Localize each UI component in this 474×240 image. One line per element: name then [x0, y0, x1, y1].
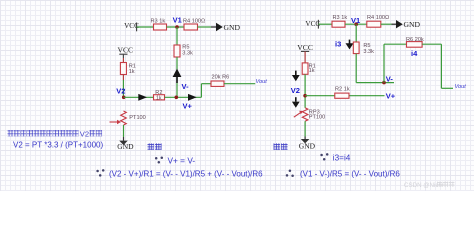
- wire R1 to V2: [122, 75, 124, 81]
- note: series divider relation (Chinese row 1): [8, 130, 103, 139]
- wire R3 to V1: [345, 23, 367, 25]
- node V1 (right): [351, 16, 360, 26]
- current arrow down (annotation, i3): [346, 40, 354, 50]
- current arrow right (annotation, V+ row): [188, 94, 197, 101]
- svg-text:V2: V2: [80, 130, 89, 139]
- note 虚断 (right): [274, 143, 288, 150]
- svg-text:PT100: PT100: [309, 114, 325, 120]
- resistor R4 100Ω (right): [367, 15, 389, 27]
- resistor R6 20k: [211, 74, 229, 86]
- svg-text:i3=i4: i3=i4: [333, 154, 351, 163]
- svg-text:V1: V1: [351, 16, 360, 25]
- wire R3 to V1: [167, 26, 185, 28]
- resistor R1 1k: [120, 63, 135, 75]
- svg-text:1k: 1k: [129, 69, 135, 75]
- wire R6 to Vout: [224, 83, 255, 85]
- svg-text:i4: i4: [411, 49, 418, 58]
- power port VCC (top rail): [124, 22, 139, 31]
- svg-text:(V1 - V-)/R5 = (V- - Vout)/R6: (V1 - V-)/R5 = (V- - Vout)/R6: [300, 169, 400, 178]
- because mark (left formula): [96, 169, 104, 177]
- node V1: [173, 16, 182, 29]
- svg-text:Vout: Vout: [256, 79, 268, 85]
- svg-text:20k R6: 20k R6: [212, 74, 230, 80]
- power port VCC (left branch, right circuit): [297, 43, 313, 52]
- power port GND (top right): [216, 23, 240, 32]
- ground GND (left branch): [117, 141, 134, 152]
- wire R4 to GND port: [381, 23, 396, 25]
- therefore mark (right formula): [286, 170, 294, 177]
- pin stub VCC to R1: [304, 51, 306, 63]
- wire V- up to R6 row: [384, 44, 407, 82]
- svg-text:R2 1k: R2 1k: [335, 87, 350, 93]
- svg-text:GND: GND: [299, 141, 316, 150]
- pin stub VCC to R1: [122, 54, 124, 58]
- svg-text:R4 100Ω: R4 100Ω: [183, 19, 205, 25]
- wire V2 to R2: [124, 96, 154, 98]
- svg-text:V+: V+: [183, 101, 193, 110]
- current arrow up (annotation): [173, 69, 182, 83]
- resistor R5 3.3k: [174, 45, 193, 57]
- thermistor RP3 PT100: [302, 108, 325, 121]
- svg-text:PT100: PT100: [129, 115, 145, 121]
- because mark (V+=V- line): [155, 156, 163, 163]
- node V2: [116, 87, 125, 100]
- current arrow down (annotation, below V2): [292, 97, 300, 108]
- svg-text:R3 1k: R3 1k: [151, 19, 166, 25]
- wire corner up to R6 row: [201, 84, 211, 98]
- svg-text:VCC: VCC: [118, 46, 134, 55]
- svg-text:R4 100Ω: R4 100Ω: [367, 15, 389, 21]
- wire VCC to R3: [318, 23, 332, 25]
- svg-text:(V2 - V+)/R1 = (V- - V1)/R5 +: (V2 - V+)/R1 = (V- - V1)/R5 + (V- - Vout…: [109, 169, 263, 178]
- svg-text:GND: GND: [404, 20, 421, 29]
- svg-text:3.3k: 3.3k: [363, 49, 374, 55]
- power port VCC (top rail): [305, 20, 320, 29]
- svg-text:V2: V2: [116, 87, 125, 96]
- resistor R2 1k (right): [335, 87, 350, 99]
- svg-text:VCC: VCC: [297, 43, 313, 52]
- wire R2 to corner, node V- junction: [165, 96, 202, 100]
- svg-text:R5: R5: [363, 43, 370, 49]
- svg-text:V+: V+: [386, 92, 396, 101]
- wire VCC to R3: [137, 26, 154, 28]
- svg-text:V-: V-: [182, 82, 190, 91]
- resistor R2 1k: [154, 90, 165, 102]
- ground GND (right branch): [299, 139, 316, 150]
- svg-text:V1: V1: [173, 16, 182, 25]
- node V2 (right): [291, 86, 307, 97]
- wire RP3 to GND: [304, 121, 306, 139]
- arrow into RP3: [294, 111, 303, 117]
- current arrow right (annotation, V2 row): [138, 94, 147, 101]
- wire R6 right and down to Vout: [422, 44, 453, 88]
- svg-text:GND: GND: [117, 142, 134, 151]
- svg-text:GND: GND: [224, 23, 241, 32]
- watermark: [404, 182, 454, 190]
- because mark (i3=i4): [320, 153, 328, 160]
- resistor R1 1k (right): [302, 63, 316, 74]
- power port GND (top right): [396, 20, 420, 29]
- svg-text:R6 20k: R6 20k: [406, 37, 424, 43]
- svg-text:Vout: Vout: [455, 84, 467, 90]
- node V- (right): [382, 74, 393, 84]
- wire R5 down to node V-: [176, 57, 178, 97]
- svg-text:V2: V2: [291, 86, 300, 95]
- svg-text:V2 = PT *3.3 / (PT+1000): V2 = PT *3.3 / (PT+1000): [13, 140, 103, 149]
- svg-text:R3 1k: R3 1k: [333, 15, 348, 21]
- resistor R6 20k (right): [406, 37, 424, 47]
- wire PT100 to GND: [123, 125, 125, 141]
- svg-text:1k: 1k: [309, 68, 315, 74]
- current arrow down (annotation, above V2): [292, 71, 300, 82]
- wire V1 down to R5: [355, 24, 357, 42]
- resistor R3 1k: [151, 19, 167, 30]
- svg-text:3.3k: 3.3k: [182, 51, 193, 57]
- svg-text:V-: V-: [386, 74, 394, 83]
- svg-text:V+ = V-: V+ = V-: [168, 155, 196, 165]
- wire V1 down to R5: [176, 27, 178, 45]
- resistor R3 1k (right): [332, 15, 347, 27]
- note 虚短 (left): [148, 143, 162, 150]
- thermistor PT100: [121, 111, 146, 125]
- arrow into PT100: [110, 120, 122, 124]
- wire V2 row to V+: [305, 95, 384, 97]
- wire R4 to GND port: [198, 26, 217, 28]
- wire R5 down and right to node V-: [356, 54, 394, 83]
- svg-text:1k: 1k: [156, 95, 162, 101]
- resistor R4 100Ω: [183, 19, 205, 30]
- svg-text:i3: i3: [335, 39, 341, 48]
- power port VCC (left branch): [118, 46, 134, 55]
- resistor R5 3.3k (right): [353, 42, 374, 55]
- wire R1 to V2: [304, 74, 306, 108]
